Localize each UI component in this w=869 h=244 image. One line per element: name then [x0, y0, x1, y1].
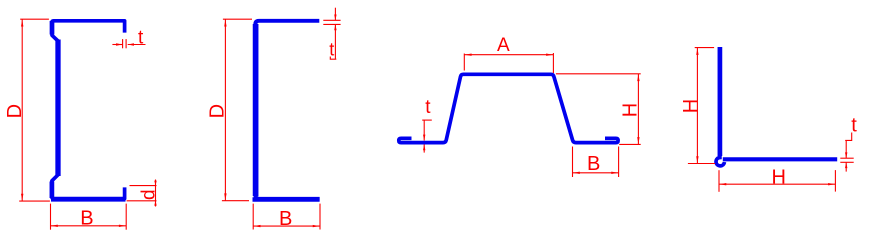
- dimension A (profile 3) extension line right: [552, 53, 554, 73]
- dimension t (profile 3) arrow line below: [423, 144, 425, 152]
- dimension D (profile 1) extension line top: [20, 18, 49, 20]
- svg-text:H: H: [680, 99, 702, 113]
- dimension d (profile 1) dimension line: [155, 180, 157, 207]
- dimension d (profile 1) extension line bottom: [127, 200, 157, 202]
- dimension H bottom (profile 4) extension line right: [834, 170, 836, 192]
- dimension B (profile 2) extension line left: [252, 204, 254, 230]
- svg-text:t: t: [851, 115, 857, 137]
- dimension H (profile 3) arrow bottom: [637, 137, 639, 144]
- dimension D (profile 2) extension line bottom: [222, 200, 249, 202]
- dimension D (profile 1) arrow top: [21, 20, 23, 27]
- profile 1 bottom flange thickening: [51, 197, 126, 201]
- dimension d (profile 1) arrow bottom: [154, 201, 156, 206]
- dimension B (profile 3) arrow left: [573, 172, 580, 174]
- dimension B (profile 1) arrow left: [51, 225, 58, 227]
- svg-text:A: A: [497, 35, 510, 56]
- profile 1 upper web segment thickening: [50, 21, 55, 35]
- profile 4 horizontal leg: [723, 157, 837, 161]
- dimension D (profile 2) dimension line: [224, 19, 226, 201]
- dimension D (profile 1) arrow bottom: [21, 194, 23, 201]
- dimension H bottom (profile 4) arrow right: [828, 183, 835, 185]
- svg-text:B: B: [587, 153, 600, 175]
- dimension t (profile 2) tick bottom: [323, 23, 340, 25]
- dimension B (profile 1) extension line right: [125, 204, 127, 230]
- svg-text:d: d: [139, 189, 160, 200]
- dimension t (profile 2) tick top: [323, 19, 340, 21]
- dimension H left (profile 4) arrow top: [696, 48, 698, 55]
- dimension t (profile 4) arrow line above: [845, 140, 847, 158]
- dimension t (profile 1) arrow line right: [128, 44, 146, 46]
- dimension H (profile 3) extension line bottom: [619, 143, 641, 145]
- profile 3 outline: [399, 74, 618, 142]
- dimension B (profile 3) extension line right: [618, 147, 620, 178]
- dimension B (profile 1) arrow right: [119, 225, 126, 227]
- dimension t (profile 2) arrow line above: [334, 8, 336, 21]
- dimension B (profile 2) dimension line: [253, 225, 320, 227]
- profile 4 corner loop: [716, 153, 724, 166]
- dimension B (profile 1) extension line left: [50, 204, 52, 230]
- dimension B (profile 2) arrow right: [313, 225, 320, 227]
- dimension D (profile 2) arrow top: [224, 20, 226, 27]
- profile 2 outline: [255, 21, 319, 199]
- dimension H left (profile 4) arrow bottom: [696, 156, 698, 163]
- dimension t (profile 4) tick bottom: [840, 161, 853, 163]
- profile 1 lower web segment thickening: [50, 182, 55, 199]
- dimension H (profile 3) extension line top: [556, 73, 641, 75]
- dimension t (profile 4) leader elbow: [845, 133, 852, 141]
- dimension H bottom (profile 4) dimension line: [719, 183, 835, 185]
- svg-text:t: t: [425, 97, 431, 118]
- profile 2 bottom flange thickening: [253, 197, 320, 201]
- dimension t (profile 3) arrow line above: [423, 120, 425, 140]
- dimension B (profile 3) dimension line: [573, 172, 619, 174]
- dimension H left (profile 4) dimension line: [696, 48, 698, 164]
- dimension A (profile 3) dimension line: [464, 54, 553, 56]
- svg-text:t: t: [138, 28, 144, 49]
- svg-text:B: B: [80, 207, 93, 229]
- dimension t (profile 2) arrow line below: [334, 24, 336, 59]
- dimension A (profile 3) arrow right: [546, 54, 553, 56]
- dimension B (profile 2) arrow left: [254, 225, 261, 227]
- svg-text:H: H: [772, 167, 786, 189]
- dimension D (profile 2) extension line top: [223, 18, 252, 20]
- svg-text:B: B: [279, 208, 292, 230]
- dimension B (profile 3) extension line left: [572, 147, 574, 178]
- dimension A (profile 3) arrow left: [465, 54, 472, 56]
- dimension t (profile 1) tick left: [122, 39, 124, 48]
- dimension D (profile 1) extension line bottom: [19, 200, 50, 202]
- dimension d (profile 1) arrow top: [154, 181, 156, 186]
- dimension t (profile 4) arrow line below: [845, 162, 847, 171]
- dimension H (profile 3) arrow top: [637, 74, 639, 81]
- dimension D (profile 1) dimension line: [21, 19, 23, 201]
- profile 2 web thickening: [253, 24, 259, 196]
- profile 4 vertical leg: [718, 47, 723, 156]
- dimension t (profile 2) leader elbow: [330, 57, 336, 60]
- dimension H left (profile 4) extension line bottom: [688, 163, 715, 165]
- dimension B (profile 3) arrow right: [611, 172, 618, 174]
- dimension H left (profile 4) extension line top: [695, 47, 714, 49]
- dimension H (profile 3) dimension line: [637, 74, 639, 145]
- dimension H bottom (profile 4) extension line left: [718, 170, 720, 192]
- dimension A (profile 3) extension line left: [463, 54, 465, 71]
- svg-text:H: H: [619, 103, 641, 117]
- dimension D (profile 2) arrow bottom: [224, 193, 226, 200]
- dimension d (profile 1) extension line top: [130, 185, 157, 187]
- profile 1 web thickening: [55, 40, 60, 177]
- dimension B (profile 2) extension line right: [319, 204, 321, 230]
- svg-text:D: D: [4, 104, 26, 118]
- dimension t (profile 1) arrow line left: [112, 44, 122, 46]
- dimension t (profile 1) tick right: [125, 39, 127, 48]
- profile 1 outline: [52, 21, 125, 199]
- svg-text:D: D: [207, 104, 229, 118]
- dimension t (profile 4) tick top: [840, 157, 853, 159]
- dimension t (profile 3) shoulder tick: [422, 119, 432, 121]
- dimension H bottom (profile 4) arrow left: [720, 183, 727, 185]
- dimension B (profile 1) dimension line: [51, 225, 127, 227]
